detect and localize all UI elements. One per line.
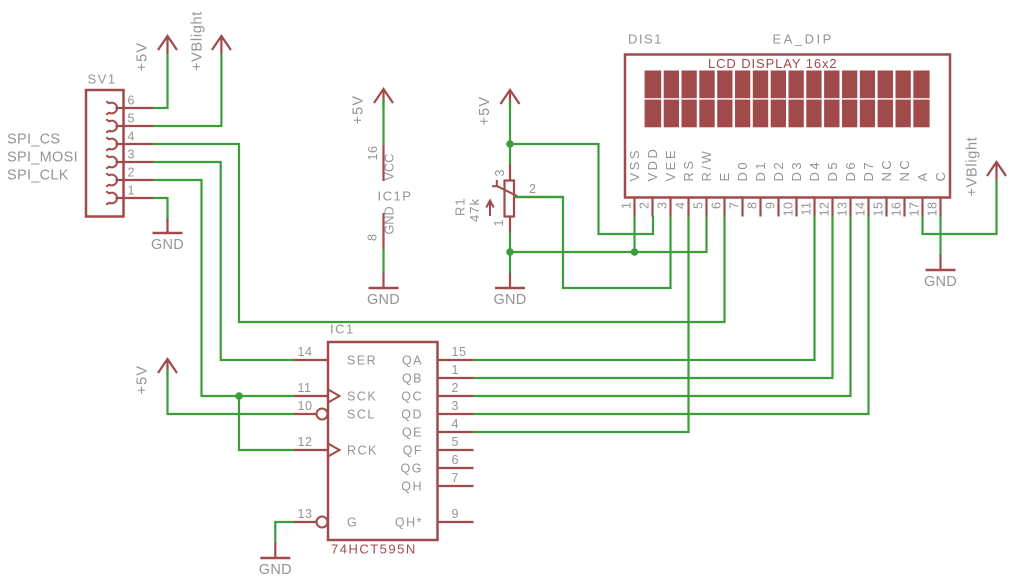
DIS1 pin 12 D5 [818,160,841,217]
R1 pin 3 [493,164,510,181]
svg-text:D3: D3 [789,160,804,182]
svg-text:6: 6 [452,453,459,467]
svg-text:10: 10 [782,202,796,217]
IC1 pin 2 QC [401,381,473,403]
svg-text:D6: D6 [843,160,858,182]
svg-text:SER: SER [347,353,377,367]
SV1 pin 2 [106,166,153,187]
svg-text:D5: D5 [825,160,840,182]
svg-text:8: 8 [366,234,380,241]
svg-text:QH: QH [401,479,423,493]
ground GND (IC1) [259,543,292,578]
wire LCD RS pin4 to QE [474,216,689,432]
svg-text:3: 3 [452,399,459,413]
svg-text:3: 3 [656,202,670,209]
svg-text:+VBlight: +VBlight [964,136,980,196]
IC1 body [328,342,438,540]
svg-text:13: 13 [836,202,850,217]
svg-text:16: 16 [366,146,380,161]
svg-text:D4: D4 [807,160,822,182]
svg-text:LCD DISPLAY 16x2: LCD DISPLAY 16x2 [708,56,838,71]
svg-text:9: 9 [764,202,778,209]
IC1 pin 6 QG [401,453,474,475]
svg-text:14: 14 [854,202,868,217]
R1 wiper pin 2 [514,182,546,197]
svg-text:GND: GND [367,292,400,308]
wire R1.1 to ground rail [509,232,511,274]
label IC1P [378,189,413,204]
wire SV1.5 to +VBlight [154,54,222,126]
svg-text:SCK: SCK [347,389,377,403]
label EA_DIP [773,32,834,47]
net label SPI_CS [7,132,60,148]
svg-text:14: 14 [298,345,313,359]
label R1 [453,197,468,216]
svg-text:SPI_MOSI: SPI_MOSI [7,150,78,166]
wire SV1.6 to +5V [154,54,168,108]
svg-text:QH*: QH* [395,515,423,529]
svg-text:+VBlight: +VBlight [189,11,205,71]
supply +VBlight (top) [189,11,231,71]
svg-text:15: 15 [872,202,886,217]
IC1 pin 5 QF [403,435,474,457]
svg-text:E: E [717,170,732,181]
svg-text:17: 17 [908,202,922,217]
svg-text:GND: GND [493,292,526,308]
value 74HCT595N [331,542,417,557]
svg-text:D0: D0 [735,160,750,182]
trimmer R1 body [505,181,515,217]
svg-text:5: 5 [452,435,459,449]
IC1 pin 11 SCK [294,381,377,403]
DIS1 pin 14 D7 [854,160,877,217]
ground GND (R1) [493,273,526,308]
DIS1 pin 18 C [926,170,949,217]
supply +VBlight (right) [964,136,1006,196]
svg-text:15: 15 [452,345,467,359]
R1 wiper arrow [492,180,518,196]
svg-text:VCC: VCC [383,154,397,181]
wire SPI_CLK SV1.2 to IC1 SCK [154,180,295,396]
DIS1 pin 10 D3 [782,160,805,217]
wire LCD D4 pin11 to QA [474,216,815,360]
svg-text:4: 4 [674,202,688,209]
svg-text:GND: GND [383,206,397,234]
wire +5V to IC1P VCC [382,99,384,146]
svg-text:2: 2 [452,381,459,395]
wire SPI_MOSI SV1.3 to IC1 SER [154,162,295,360]
svg-text:A: A [915,170,930,181]
svg-text:1: 1 [620,202,634,209]
wire +5V to IC1 SCL [168,370,295,415]
DIS1 pin 15 NC [872,158,895,217]
svg-text:SPI_CS: SPI_CS [7,132,60,148]
svg-text:11: 11 [298,381,312,395]
IC1P VCC pin 16 [366,145,397,181]
svg-text:RS: RS [681,158,696,181]
svg-text:+5V: +5V [477,96,493,126]
supply +5V (IC1P) [351,89,393,125]
DIS1 pin 11 D4 [800,160,823,217]
R1 pin 1 [492,217,510,233]
svg-text:18: 18 [926,202,940,217]
wire SPI_CLK branch to IC1 RCK [239,396,294,450]
svg-text:SV1: SV1 [88,72,117,87]
junction VSS at ground rail [631,248,639,256]
wire IC1 G to ground [275,522,294,545]
supply +5V (SCL) [135,359,177,395]
R1 adjust arrow [486,201,493,217]
svg-text:11: 11 [800,202,814,216]
ground GND (SV1 pin1) [151,218,184,253]
IC1 pin 14 SER [294,345,377,367]
svg-text:QA: QA [402,353,423,367]
wire ground rail to LCD VSS/RW [510,216,707,252]
svg-text:GND: GND [924,274,957,290]
IC1 pin 1 QB [402,363,474,385]
junction at R1 GND [506,248,514,256]
svg-text:NC: NC [879,158,894,182]
DIS1 pin 4 RS [674,158,697,216]
svg-text:16: 16 [890,202,904,217]
svg-text:7: 7 [452,471,459,485]
svg-text:4: 4 [128,130,135,144]
svg-text:QG: QG [401,461,423,475]
SV1 pin 5 [106,112,153,133]
svg-text:74HCT595N: 74HCT595N [331,542,417,557]
svg-text:SCL: SCL [347,407,376,421]
SV1 pin 4 [106,130,153,151]
DIS1 pin 5 R/W [692,149,715,217]
svg-text:+5V: +5V [351,95,367,125]
svg-text:12: 12 [298,435,313,449]
svg-text:D1: D1 [753,160,768,182]
ground GND (LCD backlight) [924,255,957,290]
svg-text:3: 3 [128,148,135,162]
IC1 pin 15 QA [402,345,474,367]
label DIS1 [628,32,663,47]
svg-text:7: 7 [728,202,742,209]
svg-text:12: 12 [818,202,832,217]
junction at R1 +5V [506,140,514,148]
LCD character cells [645,70,930,129]
wire LCD A pin17 to +VBlight [923,180,997,234]
net label SPI_MOSI [7,150,78,166]
SV1 pin 1 [106,184,153,205]
label IC1 [330,322,355,337]
svg-text:IC1P: IC1P [378,189,413,204]
svg-text:VSS: VSS [627,148,642,182]
svg-text:QC: QC [401,389,423,403]
SV1 pin 3 [106,148,153,169]
DIS1 pin 1 VSS [620,148,643,217]
svg-text:2: 2 [529,182,536,196]
svg-text:2: 2 [128,166,135,180]
IC1P GND pin 8 [366,206,397,249]
svg-text:47k: 47k [467,198,482,222]
wire SV1.1 to GND [154,198,168,220]
svg-text:NC: NC [897,158,912,182]
svg-text:QD: QD [401,407,423,421]
title LCD DISPLAY 16x2 [708,56,838,71]
svg-text:8: 8 [746,202,760,209]
svg-text:+5V: +5V [135,42,151,72]
svg-text:1: 1 [452,363,459,377]
supply +5V (R1) [477,90,519,126]
svg-text:C: C [933,170,948,182]
IC1 pin 9 QH* [395,507,474,529]
svg-text:6: 6 [710,202,724,209]
wire SPI_CS SV1.4 to LCD E pin6 [154,144,725,322]
svg-text:GND: GND [151,237,184,253]
ground GND (IC1P) [367,273,400,308]
svg-text:3: 3 [493,169,507,176]
svg-text:6: 6 [128,94,135,108]
svg-text:VDD: VDD [645,147,660,182]
wire IC1P GND pin to ground [382,249,384,274]
svg-text:1: 1 [128,184,135,198]
junction SCK/RCK [235,392,243,400]
wire +5V to R1.3 [509,100,511,165]
svg-text:D2: D2 [771,160,786,182]
svg-text:+5V: +5V [135,365,151,395]
svg-text:1: 1 [492,219,506,226]
DIS1 pin 3 VEE [656,148,679,217]
svg-text:QE: QE [402,425,423,439]
IC1 pin 13 G [294,507,358,529]
IC1 pin 3 QD [401,399,473,421]
svg-text:2: 2 [638,202,652,209]
DIS1 pin 17 A [908,170,931,216]
wire wiper green [546,196,563,198]
svg-text:D7: D7 [861,160,876,182]
IC1 pin 4 QE [402,417,474,439]
wire R1 wiper to LCD VEE pin3 [514,197,671,288]
IC1 pin 12 RCK [294,435,378,457]
svg-text:R/W: R/W [699,149,714,182]
wire LCD D5 pin12 to QB [474,216,833,378]
svg-text:R1: R1 [453,197,468,216]
DIS1 pin 7 D0 [728,160,751,217]
label SV1 [88,72,117,87]
svg-text:DIS1: DIS1 [628,32,663,47]
DIS1 pin 9 D2 [764,160,787,217]
net label SPI_CLK [7,168,69,184]
DIS1 pin 13 D6 [836,160,859,217]
svg-text:QB: QB [402,371,423,385]
display DIS1 body [625,55,950,198]
svg-text:EA_DIP: EA_DIP [773,32,834,47]
IC1 pin 7 QH [401,471,473,493]
svg-text:IC1: IC1 [330,322,355,337]
svg-text:VEE: VEE [663,148,678,182]
DIS1 pin 6 E [710,170,733,216]
svg-text:5: 5 [128,112,135,126]
DIS1 pin 2 VDD [638,147,661,217]
wire +5V rail to LCD VDD pin2 [510,144,653,234]
SV1 pin 6 [106,94,153,115]
wire LCD D6 pin13 to QC [474,216,851,396]
svg-text:SPI_CLK: SPI_CLK [7,168,69,184]
connector SV1 body [86,90,124,217]
DIS1 pin 16 NC [890,158,913,217]
svg-text:QF: QF [403,443,423,457]
svg-text:10: 10 [298,399,313,413]
svg-text:G: G [347,515,358,529]
svg-text:9: 9 [452,507,459,521]
svg-text:GND: GND [259,562,292,578]
svg-text:4: 4 [452,417,459,431]
svg-text:5: 5 [692,202,706,209]
wire LCD C pin18 to GND [939,216,941,256]
value 47k [467,198,482,222]
wire LCD VSS pin1 drop [633,216,635,252]
IC1 pin 10 SCL [294,399,376,421]
svg-text:13: 13 [298,507,313,521]
wire LCD D7 pin14 to QD [474,216,869,414]
svg-text:RCK: RCK [347,443,378,457]
supply +5V (top left) [135,36,177,72]
DIS1 pin 8 D1 [746,160,769,217]
